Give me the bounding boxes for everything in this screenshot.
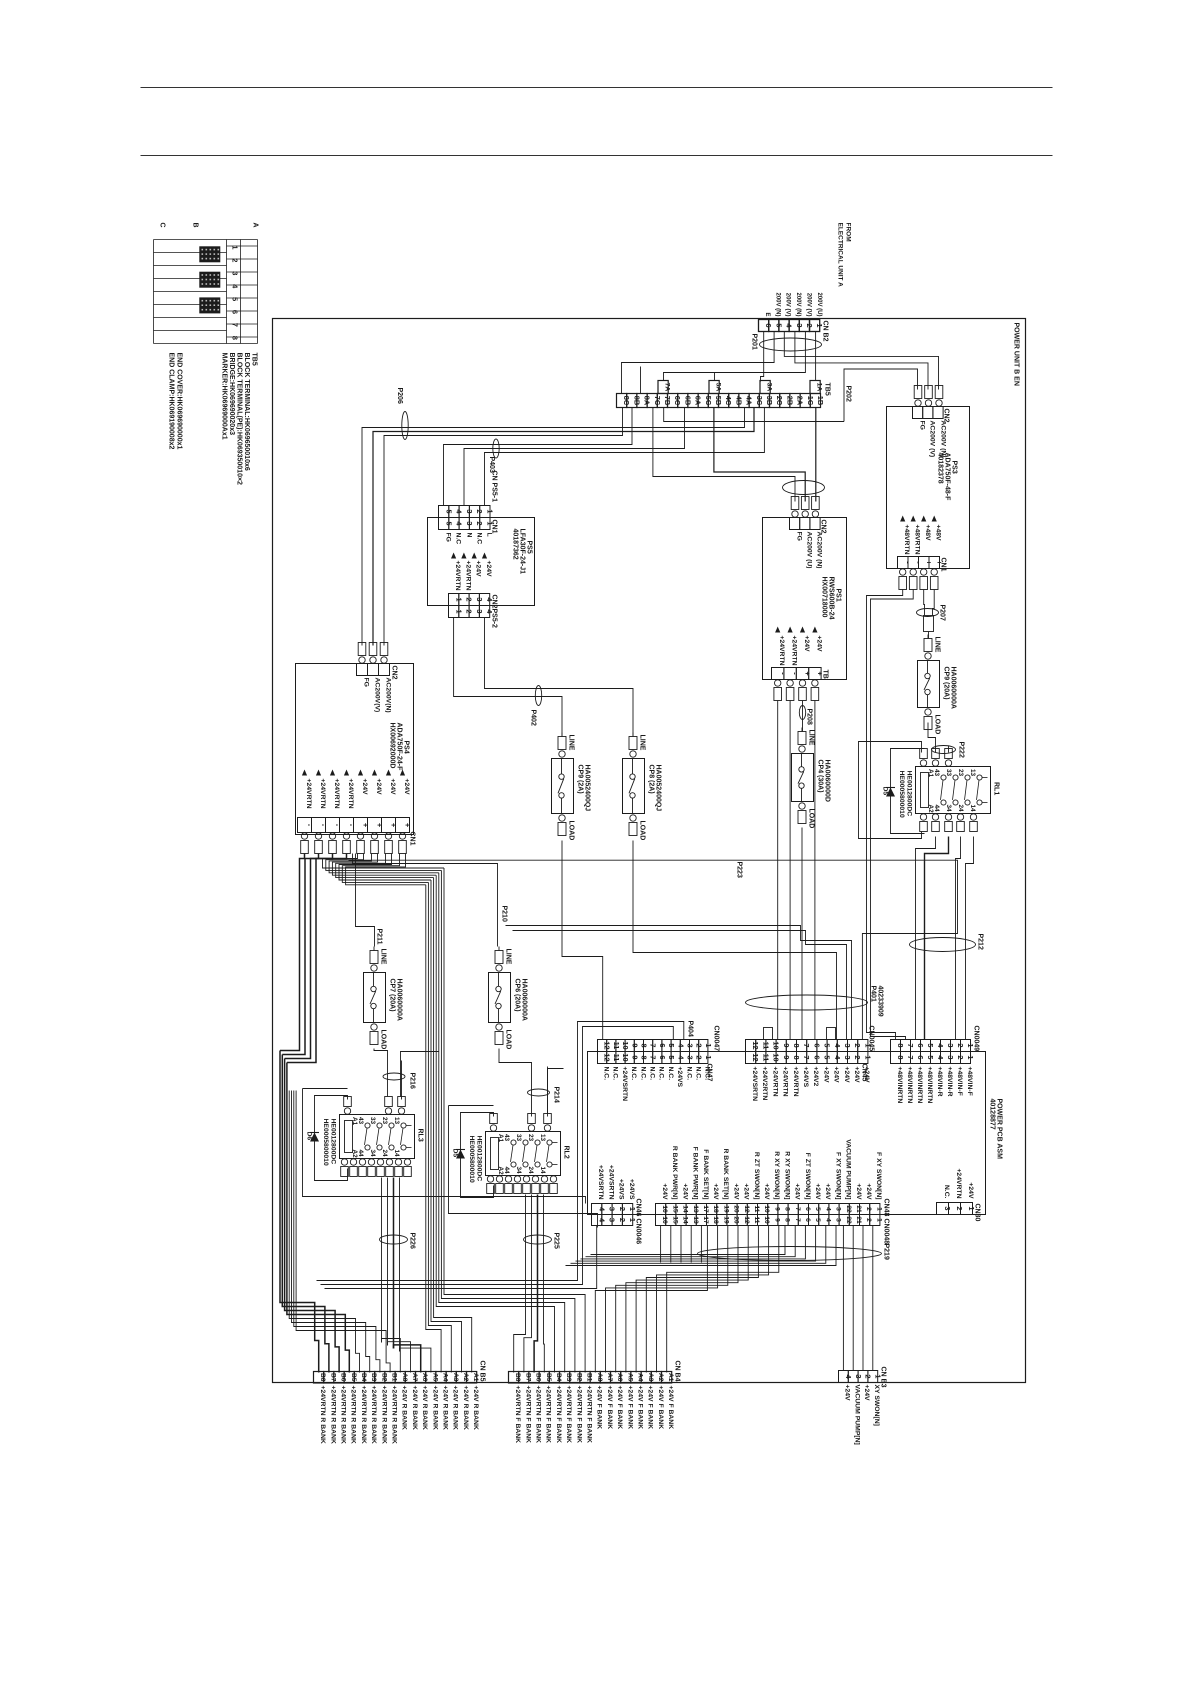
svg-text:A6: A6 <box>421 1373 428 1382</box>
svg-text:B8: B8 <box>514 1373 521 1382</box>
svg-text:A1: A1 <box>667 1373 674 1382</box>
svg-text:FG: FG <box>796 532 803 541</box>
svg-text:CN2: CN2 <box>491 595 498 609</box>
svg-text:+24V: +24V <box>389 779 396 796</box>
svg-text:+24VS: +24VS <box>628 1179 635 1200</box>
svg-text:+24V: +24V <box>403 779 410 796</box>
svg-text:RL3: RL3 <box>417 1129 424 1142</box>
svg-text:P214: P214 <box>553 1087 560 1103</box>
svg-text:HE0005800010: HE0005800010 <box>468 1136 475 1183</box>
svg-text:B4: B4 <box>360 1373 367 1382</box>
svg-text:+24V: +24V <box>763 1183 770 1200</box>
svg-text:+24VRTN: +24VRTN <box>955 1168 962 1198</box>
svg-text:F ZT SWON[N]: F ZT SWON[N] <box>804 1153 811 1200</box>
svg-text:23: 23 <box>527 1134 534 1142</box>
svg-text:A3: A3 <box>452 1373 459 1382</box>
svg-text:+24VSRTN: +24VSRTN <box>597 1165 604 1200</box>
svg-text:+48VIN-F: +48VIN-F <box>966 1067 973 1096</box>
svg-text:18: 18 <box>712 1205 719 1213</box>
svg-text:5: 5 <box>814 1218 821 1222</box>
svg-text:+24V: +24V <box>732 1183 739 1200</box>
svg-text:+48VINRTN: +48VINRTN <box>896 1067 903 1104</box>
svg-text:CN48: CN48 <box>883 1199 890 1217</box>
svg-text:12: 12 <box>743 1205 750 1213</box>
svg-text:4: 4 <box>824 1207 831 1211</box>
svg-text:+24VRTN R BANK: +24VRTN R BANK <box>360 1386 367 1444</box>
svg-text:N.C.: N.C. <box>704 1067 711 1081</box>
svg-text:11: 11 <box>753 1217 760 1224</box>
svg-text:+24VRTN: +24VRTN <box>333 779 340 809</box>
svg-text:+24VRTN: +24VRTN <box>778 636 785 666</box>
svg-text:9: 9 <box>630 1043 639 1047</box>
svg-text:7: 7 <box>794 1218 801 1222</box>
svg-text:HA0052400QJ: HA0052400QJ <box>655 765 662 812</box>
svg-text:8: 8 <box>784 1207 791 1211</box>
svg-text:LOAD: LOAD <box>808 809 815 829</box>
svg-text:CP6 (20A): CP6 (20A) <box>514 979 521 1012</box>
svg-text:9: 9 <box>773 1207 780 1211</box>
svg-text:3: 3 <box>835 1207 842 1211</box>
svg-text:13: 13 <box>393 1117 400 1125</box>
svg-text:1: 1 <box>704 1055 713 1059</box>
svg-text:POWER PCB ASM: POWER PCB ASM <box>996 1099 1003 1160</box>
svg-text:7A: 7A <box>663 383 670 392</box>
svg-text:HE0005800010: HE0005800010 <box>322 1119 329 1166</box>
svg-text:TB: TB <box>822 670 829 679</box>
svg-text:+24VRTN R BANK: +24VRTN R BANK <box>319 1386 326 1444</box>
svg-text:13: 13 <box>692 1216 699 1224</box>
svg-text:LINE: LINE <box>934 637 941 653</box>
svg-text:LINE: LINE <box>380 949 387 965</box>
svg-text:15: 15 <box>671 1205 678 1213</box>
svg-text:+48VINRTN: +48VINRTN <box>916 1067 923 1104</box>
svg-text:1A: 1A <box>815 383 822 392</box>
svg-text:+24VRTN F BANK: +24VRTN F BANK <box>575 1386 582 1444</box>
svg-text:N.C.: N.C. <box>695 1067 702 1081</box>
svg-text:16: 16 <box>661 1216 668 1224</box>
svg-text:A2: A2 <box>927 805 934 814</box>
svg-text:P401: P401 <box>870 986 877 1002</box>
svg-text:24: 24 <box>527 1167 534 1175</box>
svg-text:TB5: TB5 <box>824 383 831 396</box>
svg-text:23: 23 <box>957 769 964 777</box>
svg-text:A1: A1 <box>472 1373 479 1382</box>
svg-text:22: 22 <box>845 1216 852 1224</box>
svg-text:B5: B5 <box>545 1373 552 1382</box>
svg-text:N.C.: N.C. <box>685 1067 692 1081</box>
svg-text:14: 14 <box>682 1216 689 1224</box>
svg-text:+48VIN-R: +48VIN-R <box>946 1067 953 1097</box>
svg-text:A4: A4 <box>637 1373 644 1382</box>
svg-text:TB5: TB5 <box>251 353 258 366</box>
svg-text:FG: FG <box>919 421 926 430</box>
svg-text:40128877: 40128877 <box>989 1099 996 1130</box>
svg-text:+24VSRTN: +24VSRTN <box>751 1067 758 1102</box>
svg-text:1: 1 <box>875 1207 882 1211</box>
svg-text:11: 11 <box>753 1206 760 1213</box>
svg-text:PS1: PS1 <box>835 589 842 602</box>
svg-text:B5: B5 <box>350 1373 357 1382</box>
svg-text:P206: P206 <box>396 388 403 404</box>
svg-text:+48VRTN: +48VRTN <box>903 525 910 555</box>
svg-text:LINE: LINE <box>568 735 575 751</box>
svg-text:2: 2 <box>695 1055 704 1059</box>
svg-text:+24VRTN: +24VRTN <box>305 779 312 809</box>
svg-text:HA0060000A: HA0060000A <box>396 979 403 1021</box>
svg-text:10: 10 <box>763 1205 770 1213</box>
svg-text:+24VSRTN: +24VSRTN <box>607 1165 614 1200</box>
svg-text:3: 3 <box>686 1043 695 1047</box>
svg-text:N.C.: N.C. <box>603 1067 610 1081</box>
svg-text:RL2: RL2 <box>563 1146 570 1159</box>
svg-text:+24VRTN R BANK: +24VRTN R BANK <box>370 1386 377 1444</box>
svg-text:+24V2RTN: +24V2RTN <box>761 1067 768 1101</box>
svg-text:B6: B6 <box>535 1373 542 1382</box>
svg-text:+24VRTN R BANK: +24VRTN R BANK <box>350 1386 357 1444</box>
svg-text:B4: B4 <box>555 1373 562 1382</box>
svg-text:+24V: +24V <box>475 561 482 578</box>
svg-text:6: 6 <box>804 1207 811 1211</box>
svg-text:B3: B3 <box>370 1373 377 1382</box>
svg-text:N.C.: N.C. <box>658 1067 665 1081</box>
svg-text:LINE: LINE <box>505 949 512 965</box>
svg-text:+24V: +24V <box>863 1385 870 1402</box>
svg-text:LOAD: LOAD <box>568 821 575 841</box>
svg-text:+24V R BANK: +24V R BANK <box>472 1386 479 1430</box>
svg-text:A5: A5 <box>431 1373 438 1382</box>
svg-text:R XY SWON[N]: R XY SWON[N] <box>773 1151 780 1199</box>
svg-text:11: 11 <box>612 1042 621 1050</box>
svg-text:A4: A4 <box>442 1373 449 1382</box>
svg-text:+24VS: +24VS <box>618 1179 625 1200</box>
svg-text:5: 5 <box>814 1207 821 1211</box>
svg-text:6: 6 <box>658 1043 667 1047</box>
svg-text:6: 6 <box>658 1055 667 1059</box>
svg-text:13: 13 <box>692 1205 699 1213</box>
svg-text:21: 21 <box>855 1216 862 1224</box>
svg-text:+24VRTN: +24VRTN <box>319 779 326 809</box>
svg-text:D6: D6 <box>306 1132 313 1141</box>
svg-text:+24VRTN R BANK: +24VRTN R BANK <box>391 1386 398 1444</box>
svg-text:CN B2: CN B2 <box>822 321 829 342</box>
svg-text:P211: P211 <box>376 929 383 945</box>
svg-text:+: + <box>375 823 384 828</box>
svg-text:34: 34 <box>369 1150 376 1158</box>
svg-text:B7: B7 <box>524 1373 531 1382</box>
svg-text:+24V R BANK: +24V R BANK <box>442 1386 449 1430</box>
svg-text:34: 34 <box>945 805 952 813</box>
svg-text:+24VRTN: +24VRTN <box>347 779 354 809</box>
svg-text:+24V2: +24V2 <box>812 1067 819 1087</box>
svg-text:+48V: +48V <box>935 525 942 542</box>
svg-text:+24VRTN: +24VRTN <box>771 1067 778 1097</box>
svg-text:LINE: LINE <box>808 730 815 746</box>
svg-text:+24VRTN: +24VRTN <box>464 561 471 591</box>
svg-text:16: 16 <box>661 1205 668 1213</box>
svg-text:+24V R BANK: +24V R BANK <box>401 1386 408 1430</box>
svg-text:CN1: CN1 <box>491 520 498 534</box>
svg-text:5A: 5A <box>714 383 721 392</box>
svg-text:A2: A2 <box>351 1150 358 1159</box>
svg-text:E: E <box>764 312 770 316</box>
svg-text:+24V: +24V <box>743 1183 750 1200</box>
svg-text:PS3: PS3 <box>951 461 958 474</box>
svg-text:HA0052400QJ: HA0052400QJ <box>584 765 591 812</box>
svg-text:14: 14 <box>969 805 976 813</box>
svg-text:B: B <box>192 223 199 228</box>
svg-text:+24VRTN F BANK: +24VRTN F BANK <box>586 1386 593 1444</box>
svg-text:A2: A2 <box>462 1373 469 1382</box>
svg-text:+24V R BANK: +24V R BANK <box>431 1386 438 1430</box>
svg-text:VACUUM PUMP[N]: VACUUM PUMP[N] <box>853 1385 860 1445</box>
svg-text:+: + <box>361 823 370 828</box>
svg-text:R XY SWON[N]: R XY SWON[N] <box>783 1151 790 1199</box>
svg-text:9: 9 <box>773 1218 780 1222</box>
svg-text:17: 17 <box>702 1205 709 1213</box>
svg-text:F XY SWON[N]: F XY SWON[N] <box>834 1152 841 1199</box>
svg-text:1: 1 <box>863 1055 872 1059</box>
svg-text:20: 20 <box>733 1205 740 1213</box>
svg-text:+24V R BANK: +24V R BANK <box>462 1386 469 1430</box>
svg-text:2: 2 <box>865 1218 872 1222</box>
svg-text:AC200V (U): AC200V (U) <box>806 532 813 569</box>
svg-text:RL1: RL1 <box>993 782 1000 795</box>
svg-text:+48VINRTN: +48VINRTN <box>926 1067 933 1104</box>
svg-text:CN46: CN46 <box>635 1199 642 1217</box>
svg-text:+24V: +24V <box>361 779 368 796</box>
svg-text:P207: P207 <box>939 605 946 621</box>
svg-text:HA0060000A: HA0060000A <box>950 667 957 709</box>
svg-text:8: 8 <box>640 1055 649 1059</box>
svg-text:D5: D5 <box>452 1149 459 1158</box>
svg-text:1B: 1B <box>816 396 825 405</box>
svg-text:B1: B1 <box>586 1373 593 1382</box>
svg-text:+24V F BANK: +24V F BANK <box>657 1386 664 1430</box>
svg-text:B8: B8 <box>319 1373 326 1382</box>
svg-text:POWER UNIT B EN: POWER UNIT B EN <box>1013 323 1020 386</box>
svg-text:HE0005800010: HE0005800010 <box>898 771 905 818</box>
svg-text:XY SWON[N]: XY SWON[N] <box>873 1385 880 1426</box>
svg-text:18: 18 <box>712 1216 719 1224</box>
svg-text:A1: A1 <box>927 769 934 778</box>
svg-text:+48VINRTN: +48VINRTN <box>906 1067 913 1104</box>
svg-text:LOAD: LOAD <box>639 821 646 841</box>
svg-text:HE0012800DC: HE0012800DC <box>330 1119 337 1165</box>
svg-text:P201: P201 <box>751 334 758 350</box>
svg-text:10: 10 <box>621 1053 630 1061</box>
svg-text:+24V: +24V <box>712 1183 719 1200</box>
svg-text:+24VRTN F BANK: +24VRTN F BANK <box>514 1386 521 1444</box>
svg-text:40233909: 40233909 <box>877 986 884 1017</box>
svg-text:+24VRTN R BANK: +24VRTN R BANK <box>340 1386 347 1444</box>
svg-text:10: 10 <box>763 1216 770 1224</box>
svg-text:END CLAMP:HK069190008x2: END CLAMP:HK069190008x2 <box>168 353 175 450</box>
svg-text:9: 9 <box>630 1055 639 1059</box>
svg-text:+48V: +48V <box>924 525 931 542</box>
svg-text:A2: A2 <box>657 1373 664 1382</box>
svg-text:+24V F BANK: +24V F BANK <box>606 1386 613 1430</box>
svg-text:+24V: +24V <box>814 1183 821 1200</box>
svg-text:END COVER:HK069690000x1: END COVER:HK069690000x1 <box>176 353 183 450</box>
svg-text:24: 24 <box>381 1150 388 1158</box>
svg-text:LOAD: LOAD <box>380 1030 387 1050</box>
svg-text:23: 23 <box>381 1117 388 1125</box>
svg-text:LINE: LINE <box>639 735 646 751</box>
svg-text:P216: P216 <box>409 1073 416 1089</box>
svg-text:+24VRTN: +24VRTN <box>454 561 461 591</box>
svg-text:+: + <box>403 823 412 828</box>
svg-text:+24V: +24V <box>803 636 810 653</box>
svg-text:200V (U): 200V (U) <box>816 292 822 316</box>
svg-text:CN0047: CN0047 <box>713 1026 720 1052</box>
svg-text:P210: P210 <box>501 906 508 922</box>
svg-text:1: 1 <box>485 509 494 513</box>
svg-text:+24VRTN F BANK: +24VRTN F BANK <box>565 1386 572 1444</box>
svg-text:7: 7 <box>649 1055 658 1059</box>
svg-text:CP4 (30A): CP4 (30A) <box>817 760 824 793</box>
svg-text:+24V: +24V <box>661 1183 668 1200</box>
svg-text:19: 19 <box>722 1216 729 1224</box>
svg-text:CN B5: CN B5 <box>479 1361 486 1382</box>
svg-text:HE0012800DC: HE0012800DC <box>476 1136 483 1182</box>
svg-text:P208: P208 <box>806 709 813 725</box>
svg-text:200V (N): 200V (N) <box>795 292 801 316</box>
svg-text:14: 14 <box>393 1150 400 1158</box>
svg-text:CP9 (20A): CP9 (20A) <box>943 667 950 700</box>
svg-text:+24V F BANK: +24V F BANK <box>596 1386 603 1430</box>
svg-text:8: 8 <box>640 1043 649 1047</box>
svg-text:CN30: CN30 <box>974 1204 981 1222</box>
svg-text:3: 3 <box>686 1055 695 1059</box>
svg-text:R BANK SET[N]: R BANK SET[N] <box>722 1149 729 1200</box>
svg-text:CP8 (2A): CP8 (2A) <box>648 765 655 794</box>
svg-text:P222: P222 <box>958 742 965 758</box>
svg-text:P226: P226 <box>409 1233 416 1249</box>
svg-text:6: 6 <box>231 310 240 314</box>
svg-text:8: 8 <box>784 1218 791 1222</box>
svg-text:A: A <box>252 223 259 228</box>
svg-text:CN1: CN1 <box>940 558 947 572</box>
svg-text:1: 1 <box>231 245 240 249</box>
svg-text:1: 1 <box>966 1055 975 1059</box>
svg-text:+24V: +24V <box>485 561 492 578</box>
svg-text:+24V: +24V <box>863 1067 870 1084</box>
svg-text:P223: P223 <box>736 862 743 878</box>
svg-text:N.C.: N.C. <box>943 1185 950 1199</box>
svg-text:12: 12 <box>603 1053 612 1061</box>
svg-text:+24V F BANK: +24V F BANK <box>667 1386 674 1430</box>
svg-text:B2: B2 <box>380 1373 387 1382</box>
svg-text:P402: P402 <box>530 710 537 726</box>
svg-text:AC200V (N): AC200V (N) <box>816 532 823 569</box>
svg-text:+24V: +24V <box>855 1183 862 1200</box>
svg-text:3: 3 <box>231 271 240 275</box>
svg-text:19: 19 <box>722 1205 729 1213</box>
svg-text:7: 7 <box>231 323 240 327</box>
svg-text:33: 33 <box>369 1117 376 1125</box>
svg-text:40182378: 40182378 <box>937 453 944 484</box>
svg-text:+24V: +24V <box>375 779 382 796</box>
svg-text:+24V F BANK: +24V F BANK <box>616 1386 623 1430</box>
svg-text:+24VSRTN: +24VSRTN <box>621 1067 628 1102</box>
svg-text:+24V R BANK: +24V R BANK <box>411 1386 418 1430</box>
svg-text:A1: A1 <box>497 1134 504 1143</box>
svg-text:N: N <box>466 533 473 538</box>
svg-text:+24V F BANK: +24V F BANK <box>626 1386 633 1430</box>
svg-text:7: 7 <box>794 1207 801 1211</box>
svg-text:N.C.: N.C. <box>649 1067 656 1081</box>
svg-text:A1: A1 <box>351 1117 358 1126</box>
svg-text:15: 15 <box>671 1216 678 1224</box>
svg-text:+24V R BANK: +24V R BANK <box>421 1386 428 1430</box>
svg-text:HA0060000A: HA0060000A <box>521 979 528 1021</box>
svg-text:200V (V): 200V (V) <box>806 293 812 317</box>
svg-text:CN0049: CN0049 <box>973 1026 980 1052</box>
svg-text:+24VRTN: +24VRTN <box>792 1067 799 1097</box>
svg-text:FG: FG <box>363 678 370 687</box>
svg-text:3A: 3A <box>765 383 772 392</box>
svg-text:+24V: +24V <box>865 1183 872 1200</box>
svg-text:CN0045: CN0045 <box>868 1026 875 1052</box>
svg-text:LFA30F-24-J1: LFA30F-24-J1 <box>519 529 526 575</box>
svg-text:+: + <box>389 823 398 828</box>
svg-text:ADA750F-24-F: ADA750F-24-F <box>396 723 403 772</box>
svg-text:AC200V(V): AC200V(V) <box>374 678 381 713</box>
svg-text:F BANK PWR[N]: F BANK PWR[N] <box>692 1147 699 1200</box>
svg-text:+24V: +24V <box>815 636 822 653</box>
svg-text:HX00692000D: HX00692000D <box>389 723 396 769</box>
svg-text:ADA750F-48-F: ADA750F-48-F <box>944 453 951 502</box>
svg-text:+24VRTN: +24VRTN <box>782 1067 789 1097</box>
svg-text:AC200V (V): AC200V (V) <box>929 421 936 458</box>
svg-text:10: 10 <box>621 1041 630 1049</box>
svg-text:F BANK SET[N]: F BANK SET[N] <box>702 1149 709 1199</box>
svg-text:20: 20 <box>733 1216 740 1224</box>
svg-text:RWS600B-24: RWS600B-24 <box>828 577 835 620</box>
svg-text:P202: P202 <box>845 386 852 402</box>
svg-text:A8: A8 <box>596 1373 603 1382</box>
svg-text:ELECTRICAL UNIT A: ELECTRICAL UNIT A <box>837 223 844 288</box>
svg-text:N.C.: N.C. <box>612 1067 619 1081</box>
svg-text:CN0046: CN0046 <box>635 1219 642 1245</box>
svg-text:+24V: +24V <box>843 1067 850 1084</box>
svg-text:34: 34 <box>515 1167 522 1175</box>
svg-text:CN PS5-1: CN PS5-1 <box>491 471 498 503</box>
svg-text:+24VRTN F BANK: +24VRTN F BANK <box>535 1386 542 1444</box>
svg-text:N.C: N.C <box>455 533 462 545</box>
svg-text:22: 22 <box>845 1205 852 1213</box>
svg-text:A5: A5 <box>626 1373 633 1382</box>
svg-text:BRIDGE:HK069690020x3: BRIDGE:HK069690020x3 <box>228 353 235 436</box>
svg-text:+24VRTN F BANK: +24VRTN F BANK <box>524 1386 531 1444</box>
svg-text:2: 2 <box>955 1206 964 1210</box>
svg-text:200V (N): 200V (N) <box>774 292 780 316</box>
svg-text:+24VRTN R BANK: +24VRTN R BANK <box>380 1386 387 1444</box>
svg-text:13: 13 <box>539 1134 546 1142</box>
svg-text:HX00718000: HX00718000 <box>821 577 828 618</box>
svg-text:A8: A8 <box>401 1373 408 1382</box>
svg-text:P225: P225 <box>553 1233 560 1249</box>
svg-text:2: 2 <box>231 258 240 262</box>
svg-text:A2: A2 <box>497 1167 504 1176</box>
svg-text:LOAD: LOAD <box>934 715 941 735</box>
svg-text:1: 1 <box>704 1043 713 1047</box>
svg-text:A6: A6 <box>616 1373 623 1382</box>
svg-text:N.C: N.C <box>476 533 483 545</box>
svg-text:CP9 (2A): CP9 (2A) <box>577 765 584 794</box>
svg-text:3: 3 <box>943 1206 952 1210</box>
svg-text:+24VS: +24VS <box>802 1067 809 1088</box>
